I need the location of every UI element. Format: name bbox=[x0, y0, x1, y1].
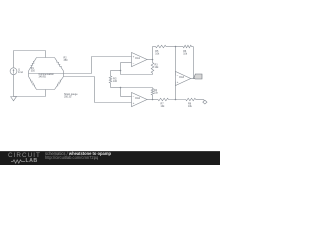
svg-text:10k: 10k bbox=[161, 105, 166, 108]
svg-text:OA1: OA1 bbox=[135, 57, 141, 60]
svg-text:OA3: OA3 bbox=[179, 76, 185, 79]
svg-text:−: − bbox=[133, 95, 135, 99]
svg-text:10k: 10k bbox=[188, 105, 193, 108]
svg-text:+: + bbox=[133, 55, 135, 59]
svg-text:100: 100 bbox=[113, 80, 118, 83]
svg-text:−: − bbox=[133, 61, 135, 65]
svg-text:350: 350 bbox=[64, 59, 69, 62]
svg-text:10k: 10k bbox=[155, 66, 160, 69]
svg-text:+: + bbox=[133, 101, 135, 105]
svg-text:349.65: 349.65 bbox=[39, 75, 47, 78]
svg-text:1mA: 1mA bbox=[18, 71, 23, 74]
svg-text:10k: 10k bbox=[155, 53, 160, 56]
svg-text:350.35: 350.35 bbox=[64, 96, 72, 99]
svg-text:OA2: OA2 bbox=[135, 97, 141, 100]
svg-text:−: − bbox=[177, 74, 179, 78]
svg-text:10k: 10k bbox=[183, 53, 188, 56]
svg-text:10k: 10k bbox=[154, 92, 159, 95]
svg-text:350: 350 bbox=[31, 69, 36, 72]
svg-text:+: + bbox=[177, 80, 179, 84]
